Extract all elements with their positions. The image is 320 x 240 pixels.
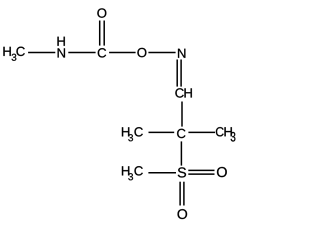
methyl group H3C (sulfonyl methyl) bbox=[122, 166, 143, 180]
atom N amide bbox=[58, 48, 65, 57]
wire bond C-CH3 bbox=[188, 131, 215, 133]
wire bond H3C-N bbox=[28, 52, 55, 54]
atom O sulfonyl right bbox=[217, 167, 227, 177]
methyl group H3C (left of quaternary C) bbox=[122, 127, 143, 141]
atom H on amide N bbox=[57, 37, 64, 46]
atom S sulfonyl bbox=[178, 167, 186, 177]
double bond S=O down bbox=[180, 182, 184, 206]
wire bond CH-C bbox=[181, 102, 183, 127]
atom O ester bbox=[137, 48, 146, 57]
atom C carbonyl bbox=[98, 48, 106, 57]
atom O sulfonyl bottom bbox=[178, 209, 188, 219]
methyl group H3C (carbamate N-methyl) bbox=[3, 47, 24, 61]
atom group CH methine bbox=[175, 88, 191, 97]
double bond N=CH bbox=[177, 60, 181, 87]
methyl group CH3 (right of quaternary C) bbox=[216, 127, 235, 141]
atom N oxime bbox=[178, 49, 185, 58]
wire bond H3C-C bbox=[149, 131, 175, 133]
wire bond C-O bbox=[109, 52, 136, 54]
atom O carbonyl oxygen bbox=[97, 8, 106, 17]
double bond S=O right bbox=[188, 170, 214, 174]
wire bond N-C bbox=[68, 52, 95, 54]
wire bond C-S bbox=[180, 141, 182, 165]
double bond C=O bbox=[100, 21, 105, 46]
wire bond H3C-S bbox=[148, 172, 176, 174]
wire bond O-N bbox=[148, 52, 175, 54]
atom C quaternary bbox=[177, 129, 185, 138]
